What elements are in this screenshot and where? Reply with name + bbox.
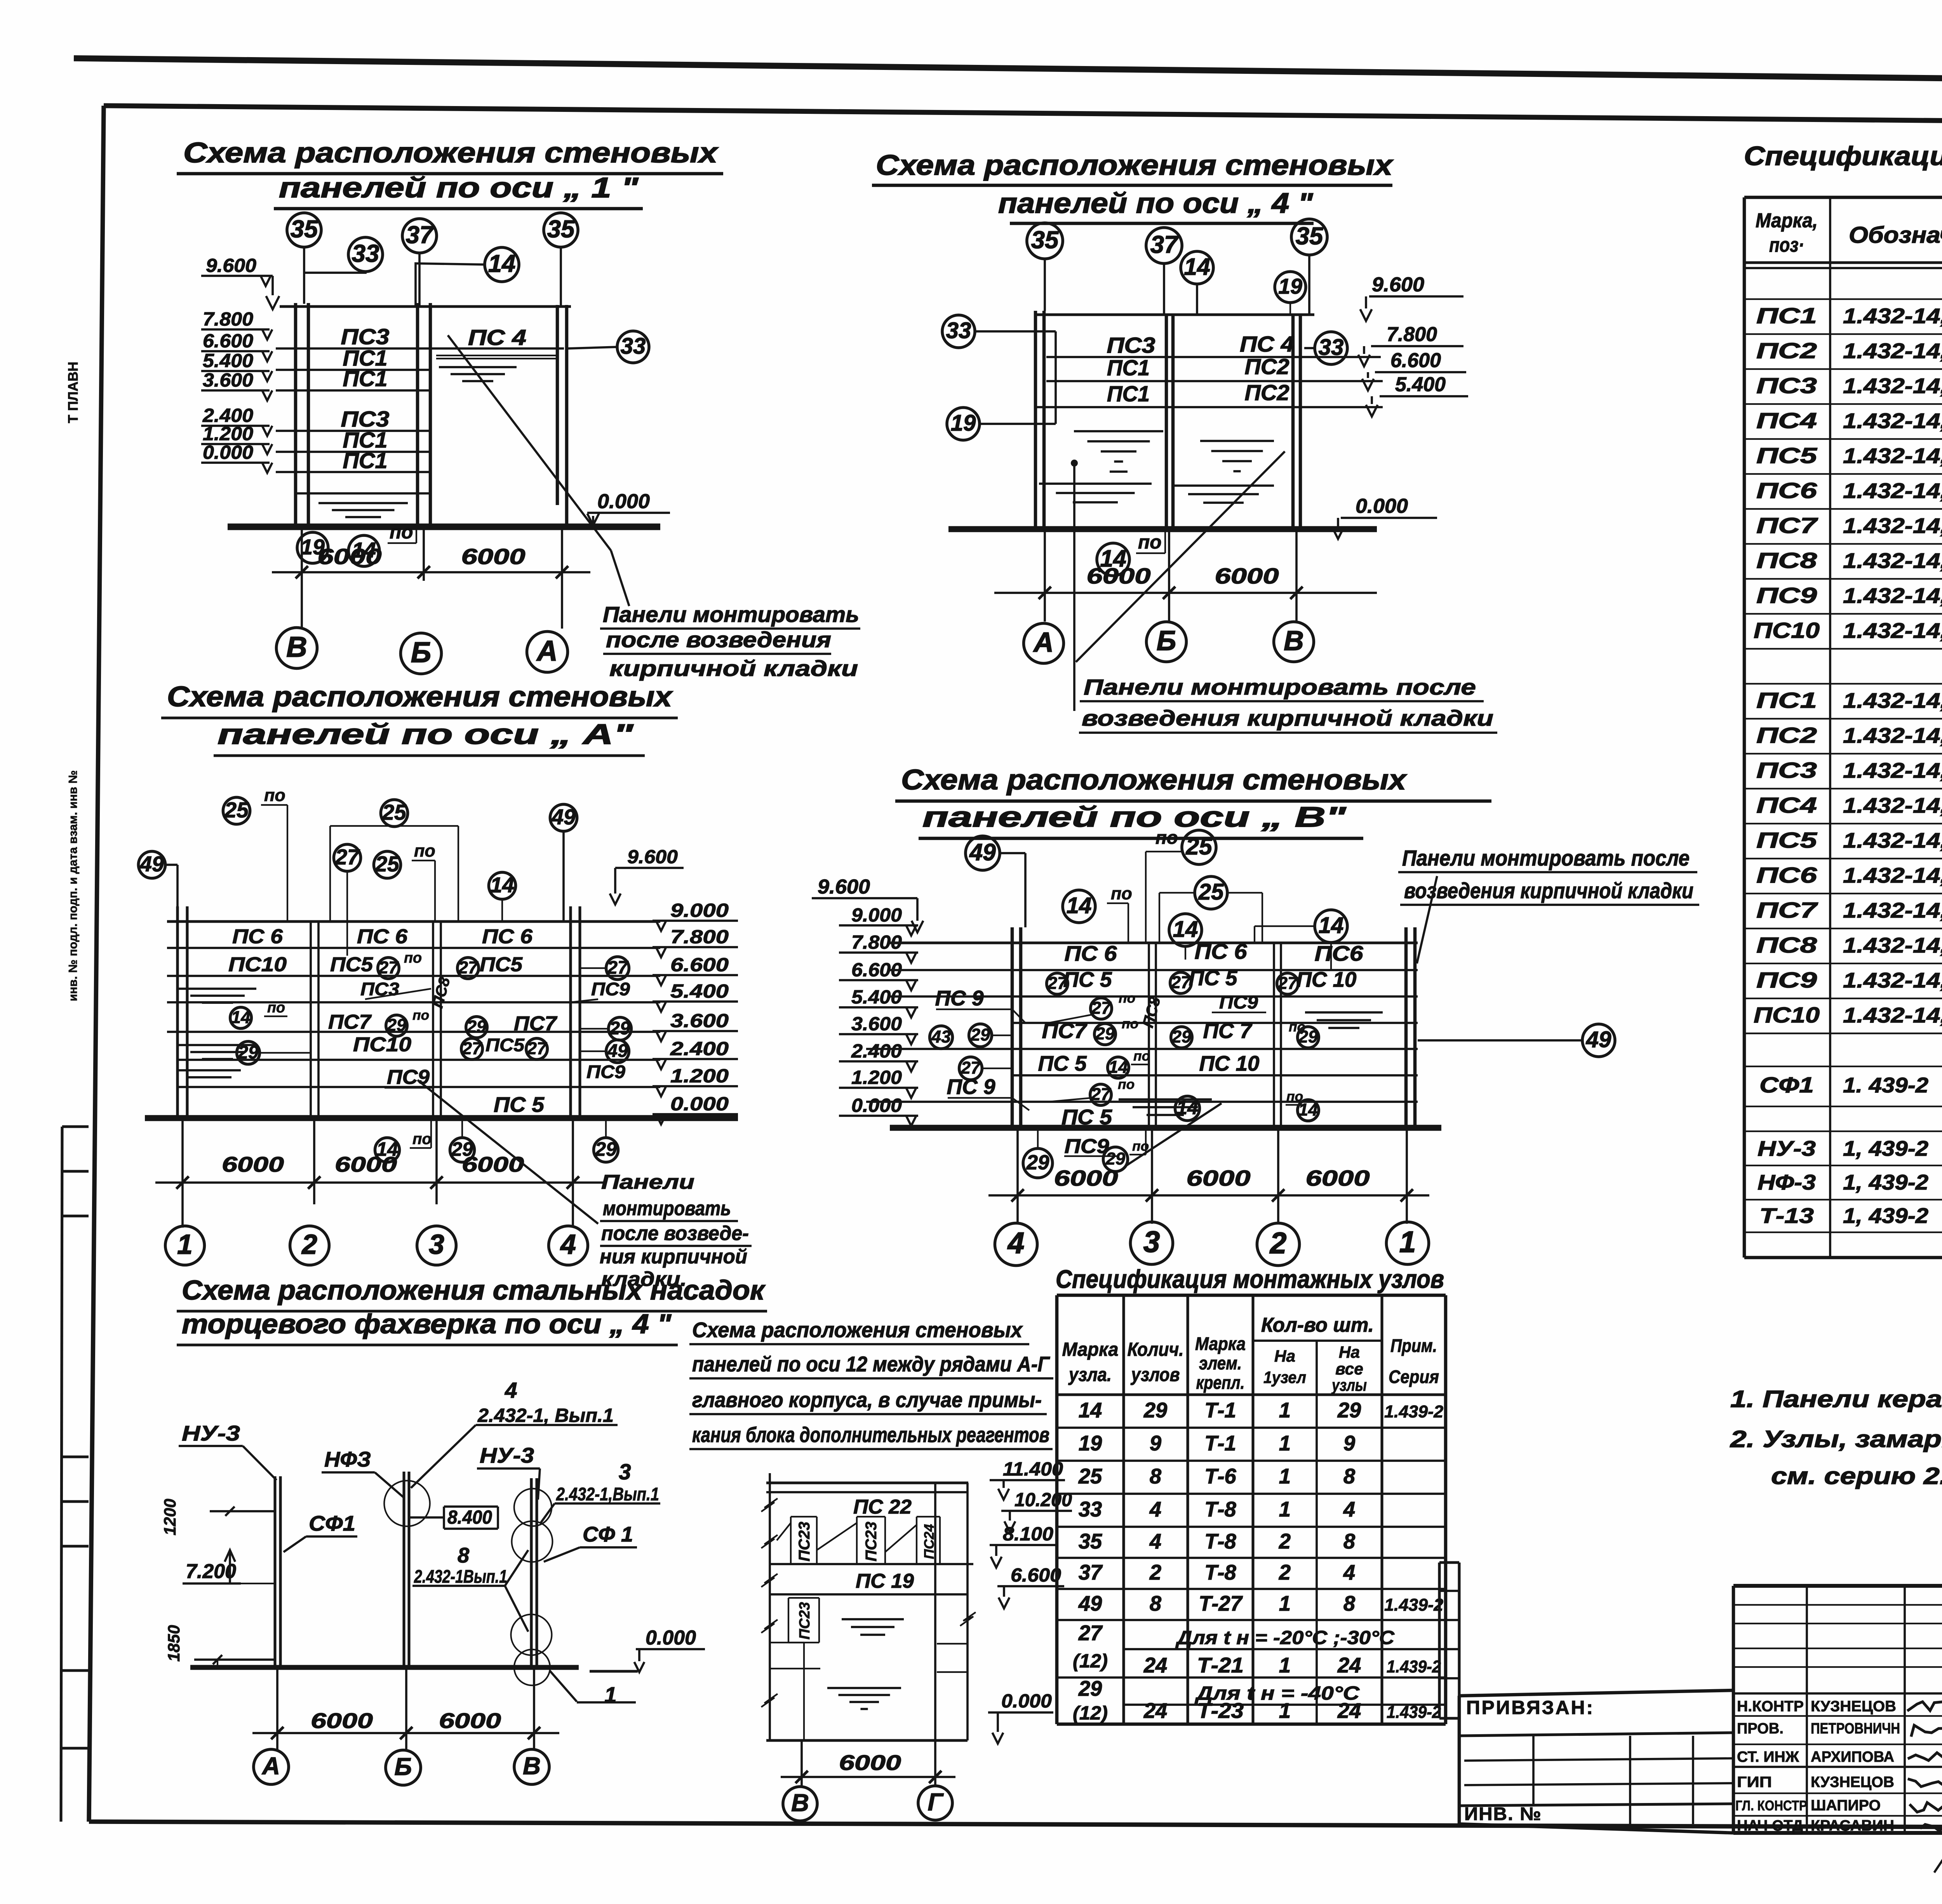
drawing 4 node 14 with по: [1063, 890, 1095, 923]
drawing 3 bottom axis circle 4: [549, 1226, 588, 1265]
svg-text:2.432-1, Вып.1: 2.432-1, Вып.1: [477, 1404, 614, 1426]
svg-text:Панели монтировать после: Панели монтировать после: [1084, 675, 1476, 700]
svg-text:27: 27: [462, 1038, 482, 1058]
drawing 2 node circle 33 right with leader: [1315, 332, 1347, 364]
svg-text:5.400: 5.400: [670, 980, 729, 1002]
drawing 3 leader diagonal to note: [418, 1080, 598, 1224]
svg-text:19: 19: [1278, 274, 1302, 298]
svg-text:ПС9: ПС9: [1219, 992, 1258, 1013]
drawing 3 node circle 25 top-1: [223, 797, 250, 824]
svg-text:1.200: 1.200: [851, 1066, 902, 1088]
drawing 5 fachwerk column Б (double): [402, 1472, 405, 1667]
drawing 6 right bay vertical: [934, 1483, 936, 1740]
svg-text:панелей по оси „ 4 ": панелей по оси „ 4 ": [998, 187, 1313, 219]
drawing 1 axis circle 37: [402, 219, 437, 253]
svg-text:29: 29: [1078, 1677, 1102, 1700]
svg-text:6000: 6000: [335, 1153, 397, 1176]
drawing 4 node 29 по row4: [1095, 1024, 1116, 1045]
svg-text:Марка: Марка: [1062, 1338, 1119, 1360]
svg-text:14: 14: [1298, 1100, 1318, 1120]
svg-text:27: 27: [1078, 1621, 1103, 1645]
drawing 4 node 27 + ПС10 bay3: [1277, 973, 1298, 995]
drawing 3 node circle 49 left: [138, 851, 165, 878]
svg-text:1.432-14, вып.1: 1.432-14, вып.1: [1843, 584, 1942, 608]
svg-text:ПС9: ПС9: [1756, 584, 1817, 608]
svg-text:25: 25: [1078, 1465, 1102, 1488]
drawing 1 panel line 2.400: [276, 430, 430, 432]
title block left grid row line 3: [1464, 1783, 1733, 1785]
elements row ПС6 (-30/-40): [1744, 893, 1942, 894]
drawing 3 node circle 29 below ground a: [450, 1138, 475, 1162]
title block vertical 1: [1806, 1586, 1808, 1833]
drawing 3 node circle 27 top: [334, 844, 360, 871]
drawing 4 panel line 1.200: [866, 1101, 1418, 1103]
svg-text:ПС 6: ПС 6: [232, 925, 283, 948]
left margin rotated stamp text lower: [66, 770, 80, 1002]
drawing 3 ground line: [145, 1115, 738, 1121]
drawing 3 panel label ПС8 row3: [428, 975, 453, 1010]
svg-text:29: 29: [1026, 1151, 1049, 1174]
page frame: inner border bottom: [89, 1822, 1942, 1829]
montage table row 33: [1057, 1526, 1446, 1528]
svg-text:ПС 9: ПС 9: [947, 1075, 995, 1099]
drawing 3 node 27 + ПС5 bay3 row2: [458, 958, 479, 979]
drawing 3 node circle 14 below ground: [375, 1138, 400, 1162]
drawing 6 water hatch lower: [827, 1687, 901, 1689]
svg-text:37: 37: [406, 221, 434, 249]
drawing 3 node 29 row4 a: [386, 1015, 407, 1036]
svg-text:ПС6: ПС6: [1756, 863, 1817, 888]
svg-text:Панели монтировать после: Панели монтировать после: [1402, 846, 1690, 871]
svg-text:2.432-1,Вып.1: 2.432-1,Вып.1: [556, 1484, 659, 1505]
svg-text:10.200: 10.200: [1015, 1489, 1072, 1510]
elements table outer frame: [1744, 196, 1942, 199]
svg-text:узлы: узлы: [1331, 1376, 1367, 1395]
svg-text:В: В: [286, 631, 307, 663]
svg-text:14: 14: [1319, 913, 1344, 938]
title block left grid col 3: [1692, 1736, 1694, 1824]
drawing 3 node 27 ПС5 27 row5: [461, 1038, 483, 1060]
drawing 1 double thin lines under ПС4: [436, 355, 556, 356]
svg-text:ПС3: ПС3: [341, 325, 390, 349]
svg-text:14: 14: [1067, 893, 1092, 918]
svg-text:27: 27: [961, 1058, 981, 1078]
svg-text:8: 8: [458, 1543, 470, 1567]
svg-text:8.100: 8.100: [1003, 1523, 1053, 1545]
svg-text:СФ1: СФ1: [309, 1512, 355, 1535]
drawing 3 panel line 6.600: [167, 975, 660, 977]
drawing 5 bottom axis circle Б: [386, 1750, 421, 1785]
svg-text:9.600: 9.600: [206, 254, 256, 276]
drawing 6 dimension line: [781, 1776, 955, 1778]
svg-text:ПС 5: ПС 5: [1038, 1052, 1087, 1075]
svg-text:ПС10: ПС10: [1754, 1003, 1820, 1028]
svg-text:панелей по оси „ А": панелей по оси „ А": [218, 718, 634, 750]
svg-text:главного корпуса, в случае при: главного корпуса, в случае примы-: [692, 1388, 1042, 1412]
svg-text:ПС4: ПС4: [1756, 793, 1817, 818]
svg-text:9.000: 9.000: [851, 904, 902, 926]
svg-text:элем.: элем.: [1199, 1353, 1242, 1374]
montage table row 37: [1057, 1588, 1446, 1590]
svg-text:Спецификация монтажных узлов: Спецификация монтажных узлов: [1056, 1265, 1444, 1294]
drawing 4 dimension line: [988, 1194, 1429, 1197]
svg-text:ПС2: ПС2: [1245, 381, 1289, 405]
drawing 3 right wall column (double): [569, 906, 572, 1116]
drawing 5 joint circle col Б top: [384, 1481, 430, 1526]
svg-text:ПС2: ПС2: [1756, 723, 1817, 748]
svg-text:29: 29: [1095, 1024, 1115, 1043]
drawing 4 node 14 по row5: [1108, 1057, 1129, 1078]
svg-text:ГЛ. КОНСТР: ГЛ. КОНСТР: [1735, 1798, 1807, 1813]
svg-text:6000: 6000: [1306, 1166, 1370, 1191]
drawing 3 node circle 29 below ground b: [594, 1138, 618, 1162]
drawing 4 water hatch row3 bay3: [1305, 1011, 1383, 1014]
svg-text:Т-23: Т-23: [1197, 1699, 1244, 1723]
drawing 4 wall column 4 (double): [1011, 927, 1014, 1128]
svg-text:ПС1: ПС1: [1107, 382, 1150, 406]
svg-text:6000: 6000: [1054, 1166, 1118, 1191]
svg-text:1.439-2: 1.439-2: [1387, 1657, 1441, 1676]
svg-text:ПС23: ПС23: [795, 1522, 813, 1561]
svg-text:29: 29: [1105, 1149, 1125, 1169]
svg-text:ПС1: ПС1: [1756, 688, 1817, 713]
svg-text:Н.КОНТР: Н.КОНТР: [1737, 1698, 1804, 1715]
title block left grid row line 4: [1459, 1804, 1733, 1806]
svg-text:по: по: [1118, 1077, 1135, 1092]
drawing 4 panel line 5.400: [1012, 1022, 1418, 1024]
drawing 4 note leader diagonal: [1417, 876, 1437, 963]
svg-text:4: 4: [1149, 1498, 1161, 1521]
svg-text:ПС1: ПС1: [1756, 304, 1817, 328]
svg-text:29: 29: [595, 1138, 617, 1160]
montage table header bottom line: [1057, 1393, 1446, 1396]
drawing 1 water hatch under ПС4: [439, 366, 517, 368]
drawing 2 axis circle 14: [1181, 251, 1213, 284]
svg-text:1.200: 1.200: [670, 1065, 729, 1087]
svg-text:А: А: [536, 634, 557, 667]
drawing 4 bottom axis circle 2: [1257, 1223, 1299, 1265]
svg-text:14: 14: [1176, 1097, 1198, 1118]
drawing 3 left wall column (double): [176, 906, 179, 1116]
drawing 3 node 29 right row4: [609, 1017, 632, 1040]
svg-text:по: по: [412, 1130, 432, 1148]
svg-text:3.600: 3.600: [670, 1010, 729, 1031]
svg-text:9.600: 9.600: [627, 846, 678, 868]
svg-text:6000: 6000: [318, 545, 382, 569]
drawing 3 node 49 right row5: [606, 1040, 629, 1063]
elements row ПС2 (-20): [1744, 368, 1942, 370]
svg-text:27: 27: [1091, 1084, 1111, 1104]
svg-text:1.432-14, вып.1: 1.432-14, вып.1: [1843, 829, 1942, 852]
svg-text:ПС10: ПС10: [353, 1033, 411, 1056]
svg-text:1. Панели керамзитобетонны: 1. Панели керамзитобетонные γ =900 кгс/м…: [1730, 1386, 1942, 1413]
svg-text:29: 29: [609, 1018, 630, 1038]
drawing 6 ПС24 box 3: [917, 1516, 940, 1517]
drawing 4 bottom axis circle 4: [995, 1223, 1037, 1265]
drawing 6 bottom axis circle В: [783, 1787, 817, 1821]
svg-text:узлов: узлов: [1130, 1364, 1180, 1385]
svg-text:27: 27: [1171, 972, 1191, 992]
svg-text:1.432-14, вып.1: 1.432-14, вып.1: [1843, 899, 1942, 922]
svg-text:1: 1: [1279, 1699, 1291, 1723]
page frame: outer top scan line: [74, 58, 1942, 85]
svg-text:ПС1: ПС1: [343, 449, 388, 473]
drawing 3 bottom axis circle 2: [290, 1226, 329, 1265]
svg-text:ПС6: ПС6: [1756, 479, 1817, 503]
elements row ПС8 (-30/-40): [1744, 963, 1942, 964]
montage table row 35: [1057, 1557, 1446, 1559]
svg-text:ния кирпичной: ния кирпичной: [600, 1246, 747, 1268]
drawing 1 panel line 0.000: [276, 471, 430, 473]
page frame: inner border top: [104, 106, 1942, 125]
svg-text:после возведе-: после возведе-: [601, 1222, 749, 1245]
drawing 4 panel line 3.600: [866, 1048, 1418, 1050]
drawing 2 panel line 3: [1035, 406, 1383, 408]
drawing 2 water hatch right bay: [1200, 440, 1274, 442]
drawing 2 dimension extension lines: [1044, 529, 1046, 622]
drawing 3 node circle 25 top-2: [381, 800, 407, 826]
svg-text:НУ-3: НУ-3: [1758, 1137, 1816, 1160]
svg-text:1, 439-2: 1, 439-2: [1843, 1204, 1928, 1228]
left margin fold strip: [62, 1125, 89, 1128]
svg-text:ПРИВЯЗАН:: ПРИВЯЗАН:: [1466, 1697, 1594, 1718]
svg-text:5.400: 5.400: [203, 350, 253, 371]
title block left grid row line 1: [1459, 1733, 1733, 1736]
drawing 5 elevation tick line bottom: [194, 1658, 275, 1661]
drawing 1 panel line lowest: [296, 492, 430, 495]
svg-text:поз·: поз·: [1769, 234, 1804, 256]
svg-text:ПС7: ПС7: [1756, 898, 1818, 923]
drawing 5 joint circle col В 3: [511, 1615, 552, 1655]
drawing 5 fachwerk column A (double): [273, 1476, 276, 1667]
svg-text:1узел: 1узел: [1263, 1369, 1306, 1387]
svg-text:СТ. ИНЖ: СТ. ИНЖ: [1737, 1749, 1799, 1765]
svg-text:24: 24: [1143, 1699, 1167, 1723]
svg-text:6000: 6000: [311, 1709, 373, 1733]
montage table outer frame: [1057, 1294, 1446, 1297]
svg-text:14: 14: [1079, 1399, 1102, 1422]
svg-text:см. серию 2. 432-1 , вып. 1: см. серию 2. 432-1 , вып. 1 .: [1771, 1463, 1942, 1489]
svg-text:6.600: 6.600: [1390, 349, 1441, 372]
svg-text:14: 14: [490, 873, 514, 897]
svg-text:29: 29: [386, 1015, 406, 1035]
svg-text:ПС9: ПС9: [1756, 968, 1817, 993]
svg-text:2: 2: [1279, 1529, 1291, 1553]
svg-text:панелей по оси „ 1 ": панелей по оси „ 1 ": [279, 172, 639, 204]
svg-text:ПС10: ПС10: [228, 953, 287, 976]
drawing 3 panel line 2.400: [177, 1059, 660, 1061]
drawing 4 bottom axis circle 3: [1130, 1222, 1173, 1264]
drawing 3 node circle 49 top: [550, 804, 577, 831]
drawing 1 wall column B (double line): [294, 303, 298, 527]
drawing 3 bottom axis circle 3: [417, 1226, 456, 1265]
drawing 1 axis circle 35 top-left: [287, 213, 321, 247]
svg-text:49: 49: [139, 852, 164, 876]
svg-text:29: 29: [1298, 1027, 1318, 1047]
svg-text:25: 25: [1198, 880, 1224, 905]
svg-text:СФ1: СФ1: [1759, 1073, 1814, 1097]
drawing 4 node 14 b: [1169, 914, 1202, 946]
svg-text:В: В: [523, 1752, 541, 1780]
svg-text:ПС3: ПС3: [1756, 758, 1817, 783]
elements row ПС1 (-20): [1744, 333, 1942, 335]
svg-text:по: по: [1111, 883, 1132, 903]
svg-text:кания блока дополнительных реа: кания блока дополнительных реагентов: [692, 1423, 1049, 1447]
svg-text:Схема расположения стеновы: Схема расположения стеновых: [876, 149, 1394, 181]
svg-text:49: 49: [1078, 1592, 1102, 1615]
svg-text:24: 24: [1337, 1653, 1361, 1677]
svg-text:19: 19: [1079, 1432, 1102, 1455]
drawing 4 water hatch row6 bay2: [1119, 1098, 1212, 1101]
elements row ПС10 (-30/-40): [1744, 1033, 1942, 1034]
svg-text:1: 1: [1279, 1498, 1291, 1521]
montage table kol-vo subdivider: [1253, 1340, 1382, 1342]
svg-text:0.000: 0.000: [646, 1627, 696, 1649]
svg-text:по: по: [1119, 990, 1135, 1006]
svg-text:9.600: 9.600: [818, 876, 870, 898]
svg-text:ПС5: ПС5: [1756, 828, 1818, 853]
svg-text:1.432-14, вып.1: 1.432-14, вып.1: [1843, 934, 1942, 957]
svg-text:1.432-14, вып.1: 1.432-14, вып.1: [1843, 409, 1942, 433]
svg-text:29: 29: [466, 1017, 486, 1036]
svg-text:А: А: [261, 1752, 280, 1780]
drawing 6 top line 1: [766, 1481, 968, 1484]
svg-text:2.400: 2.400: [670, 1038, 729, 1059]
svg-text:ПС5: ПС5: [480, 953, 523, 976]
svg-text:ПС7: ПС7: [1042, 1019, 1088, 1043]
svg-text:по: по: [264, 785, 285, 805]
drawing 1 dimension line: [272, 571, 590, 573]
svg-text:по: по: [390, 521, 413, 543]
drawing 3 panel line 1.200: [177, 1086, 660, 1088]
drawing 1 wall column B2 (double line): [416, 303, 419, 527]
svg-text:Серия: Серия: [1389, 1367, 1439, 1387]
svg-text:1. 439-2: 1. 439-2: [1843, 1073, 1928, 1097]
svg-text:6.600: 6.600: [1011, 1564, 1061, 1586]
montage table column lines: [1122, 1295, 1125, 1724]
svg-text:после возведения: после возведения: [606, 628, 831, 652]
elements row ПС7 (-20): [1744, 543, 1942, 545]
drawing 1 axis circle 35 top-right: [544, 213, 578, 247]
elements table column lines: [1829, 197, 1831, 1258]
svg-text:0.000: 0.000: [1001, 1690, 1052, 1712]
drawing 6 vertical joint below box: [803, 1643, 805, 1740]
svg-text:Б: Б: [395, 1753, 412, 1780]
svg-text:ПРОВ.: ПРОВ.: [1737, 1720, 1784, 1737]
svg-text:Панели: Панели: [601, 1171, 694, 1193]
svg-text:ПС5: ПС5: [486, 1035, 525, 1056]
svg-text:0.000: 0.000: [1356, 495, 1408, 517]
drawing 3 panel line 5.400: [167, 1001, 660, 1003]
svg-text:монтировать: монтировать: [603, 1197, 731, 1220]
svg-text:9: 9: [1150, 1432, 1161, 1455]
svg-text:35: 35: [547, 216, 575, 243]
svg-text:6000: 6000: [839, 1751, 901, 1775]
svg-text:7.800: 7.800: [1387, 323, 1437, 346]
elements row ПС3 (-20): [1744, 403, 1942, 405]
drawing 1 node circle 19 below ground: [297, 532, 328, 563]
drawing 2 dimension line: [994, 592, 1377, 594]
svg-text:ПС5: ПС5: [1756, 444, 1818, 468]
svg-text:0.000: 0.000: [203, 441, 253, 463]
svg-text:2.432-1Вып.1: 2.432-1Вып.1: [414, 1566, 507, 1587]
drawing 1 water hatch lower-left bay: [318, 502, 408, 504]
svg-text:ПС1: ПС1: [343, 367, 388, 391]
drawing 4 diagonal leader bay2: [1126, 1103, 1222, 1165]
drawing 5 elevation 1850 rotated: [165, 1625, 183, 1662]
svg-text:КУЗНЕЦОВ: КУЗНЕЦОВ: [1811, 1774, 1894, 1791]
drawing 2 panel line 2: [1046, 380, 1383, 382]
title block name rows lines: [1733, 1715, 1942, 1717]
svg-text:НАЧ ОТД: НАЧ ОТД: [1737, 1817, 1803, 1834]
svg-text:Прим.: Прим.: [1390, 1336, 1437, 1356]
svg-text:14: 14: [1184, 253, 1210, 280]
drawing 1 node circle 14 below ground: [348, 535, 379, 566]
svg-text:ИНВ. №: ИНВ. №: [1464, 1804, 1542, 1824]
svg-text:4: 4: [560, 1229, 576, 1260]
drawing 3 water hatch bay1 row6: [179, 1069, 241, 1071]
elements row ПС10 (-20): [1744, 648, 1942, 650]
svg-text:Т-8: Т-8: [1204, 1529, 1236, 1553]
svg-text:0.000: 0.000: [851, 1094, 902, 1116]
svg-text:1.432-14, вып.1: 1.432-14, вып.1: [1843, 549, 1942, 573]
svg-text:1850: 1850: [165, 1625, 183, 1662]
drawing 4 panel line 6.600: [889, 995, 1418, 998]
drawing 2 node circle 14 below ground: [1097, 543, 1129, 576]
drawing 5 boxed level 8.400: [444, 1505, 498, 1508]
svg-text:1: 1: [1279, 1432, 1291, 1455]
svg-text:ПС9: ПС9: [591, 979, 630, 1000]
svg-text:кирпичной кладки: кирпичной кладки: [609, 657, 858, 681]
montage table row 19: [1057, 1460, 1446, 1462]
drawing 2 axis circle 19 right: [1275, 272, 1306, 303]
drawing 4 middle column 2 (double): [1273, 943, 1275, 1128]
title block row line names top: [1733, 1692, 1942, 1695]
svg-text:27: 27: [1277, 973, 1298, 993]
drawing 1 axis circle 33: [348, 237, 383, 272]
svg-text:ПС1: ПС1: [1107, 356, 1150, 380]
drawing 5 bottom axis circle В: [514, 1749, 549, 1784]
svg-text:ПС10: ПС10: [1754, 618, 1820, 643]
elements row ПС9 (-20): [1744, 613, 1942, 615]
elements row ПС4 (-30/-40): [1744, 823, 1942, 824]
svg-text:1.439-2: 1.439-2: [1384, 1595, 1443, 1615]
title block main outer rect: [1733, 1584, 1942, 1588]
drawing 6 ПС23 box 2: [857, 1516, 885, 1517]
svg-text:ПС 4: ПС 4: [468, 326, 526, 350]
title block vertical 2: [1904, 1586, 1906, 1833]
elements table header bottom double line: [1744, 261, 1942, 264]
drawing 1 panel line 5.400: [276, 389, 430, 392]
svg-text:43: 43: [931, 1027, 951, 1047]
title block left rows upper area: [1733, 1604, 1942, 1606]
svg-text:(12): (12): [1073, 1650, 1108, 1672]
svg-text:по: по: [267, 999, 285, 1016]
elements row ПС5 (-20): [1744, 473, 1942, 475]
svg-text:1: 1: [604, 1683, 617, 1707]
drawing 2 panel line 1: [1046, 356, 1381, 358]
svg-text:Т-8: Т-8: [1204, 1561, 1236, 1584]
svg-text:ПС5: ПС5: [330, 953, 373, 976]
svg-text:1.432-14, вып.1: 1.432-14, вып.1: [1843, 444, 1942, 468]
svg-text:возведения кирпичной кладки: возведения кирпичной кладки: [1404, 879, 1693, 903]
drawing 1 bottom axis circle А: [527, 632, 568, 672]
svg-text:35: 35: [1031, 226, 1059, 254]
svg-text:Т-27: Т-27: [1199, 1592, 1243, 1615]
svg-text:ПС2: ПС2: [1245, 355, 1289, 379]
svg-text:1.432-14, вып.1: 1.432-14, вып.1: [1843, 864, 1942, 887]
drawing 5 joint circle col В 4: [514, 1650, 550, 1685]
